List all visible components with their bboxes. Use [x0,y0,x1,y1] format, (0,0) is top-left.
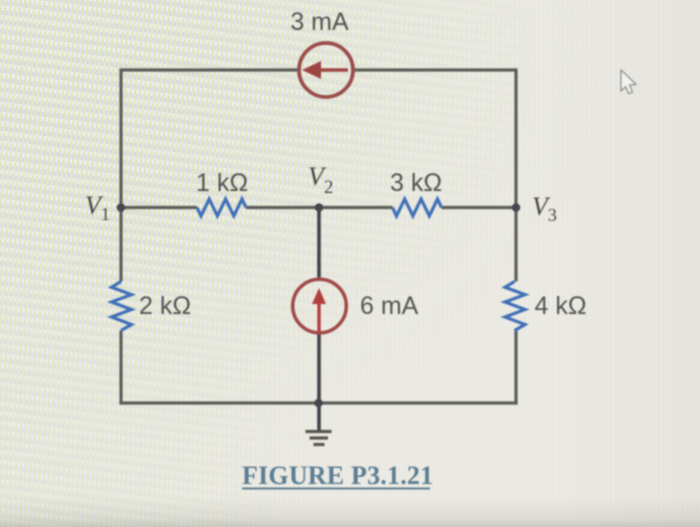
svg-text:3 kΩ: 3 kΩ [390,169,442,197]
svg-text:4 kΩ: 4 kΩ [535,292,587,320]
svg-text:2 kΩ: 2 kΩ [139,292,191,320]
svg-text:3 mA: 3 mA [290,8,349,36]
svg-text:FIGURE P3.1.21: FIGURE P3.1.21 [242,461,433,490]
svg-text:1 kΩ: 1 kΩ [196,169,248,197]
svg-text:6 mA: 6 mA [360,292,419,320]
